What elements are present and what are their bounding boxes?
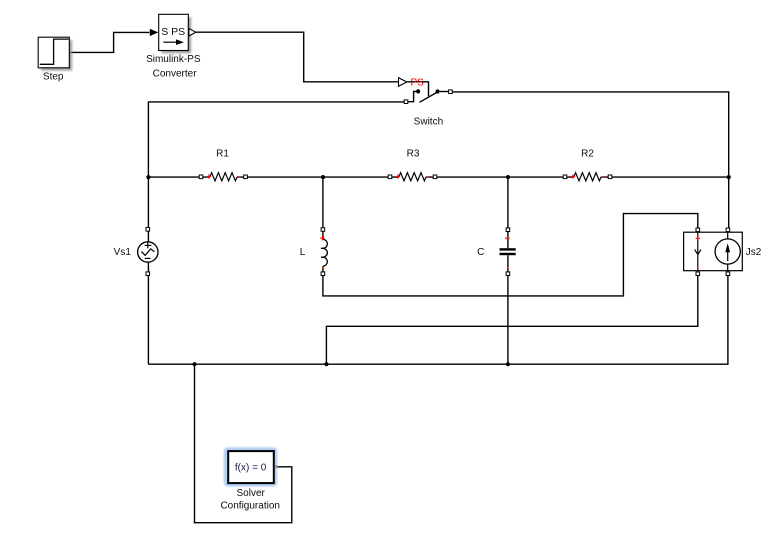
svg-text:f(x) = 0: f(x) = 0 xyxy=(235,463,267,474)
svg-text:L: L xyxy=(300,247,306,258)
svg-text:Vs1: Vs1 xyxy=(114,247,132,258)
svg-text:Solver: Solver xyxy=(237,488,266,499)
svg-text:Switch: Switch xyxy=(414,117,443,128)
svg-text:R3: R3 xyxy=(407,149,420,160)
svg-text:Configuration: Configuration xyxy=(220,500,279,511)
svg-text:R1: R1 xyxy=(216,149,229,160)
svg-text:Simulink-PS: Simulink-PS xyxy=(146,54,201,65)
svg-text:C: C xyxy=(477,247,484,258)
svg-text:Js2: Js2 xyxy=(746,247,762,258)
svg-text:S PS: S PS xyxy=(161,26,185,38)
svg-text:R2: R2 xyxy=(581,149,594,160)
svg-text:Step: Step xyxy=(43,72,64,83)
svg-text:Converter: Converter xyxy=(153,68,198,79)
svg-text:PS: PS xyxy=(411,78,425,89)
